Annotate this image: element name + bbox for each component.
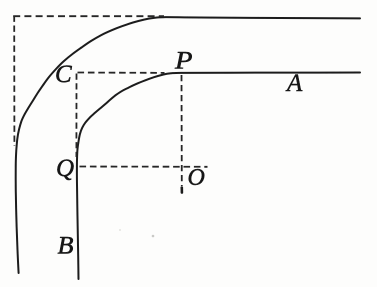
svg-text:B: B (58, 233, 74, 260)
svg-text:P: P (174, 48, 193, 75)
svg-text:Q: Q (56, 155, 74, 182)
svg-text:C: C (55, 61, 72, 88)
svg-text:A: A (285, 70, 303, 97)
svg-text:O: O (188, 165, 205, 191)
